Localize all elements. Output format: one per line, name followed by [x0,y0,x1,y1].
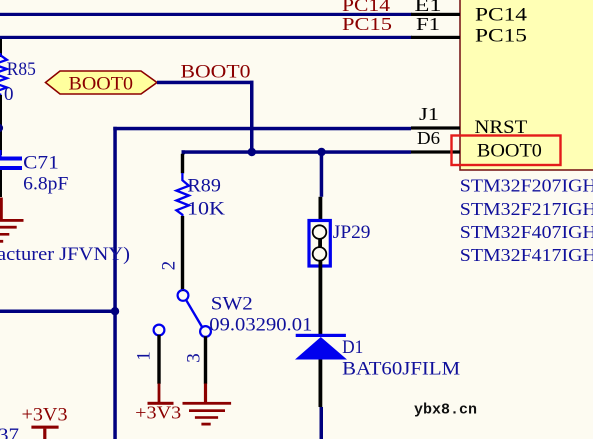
svg-text:1: 1 [134,351,155,361]
port BOOT0 (yellow flag) [46,71,158,95]
wire from port BOOT0 to junction (horizontal) [157,81,254,85]
resistor R85 [0,39,36,155]
power +3V3 at bottom left [22,405,68,439]
wire PC15 (net to MCU pin F1) [0,36,412,39]
junction at x=115,y=311 [111,307,119,315]
svg-text:C71: C71 [23,153,59,174]
svg-text:D6: D6 [417,128,440,148]
svg-text:BOOT0: BOOT0 [181,62,251,83]
comment text STM32F207IGH [460,176,593,196]
svg-text:+3V3: +3V3 [22,405,68,426]
svg-text:JP29: JP29 [333,222,371,243]
svg-text:2: 2 [158,261,179,271]
svg-text:+3V3: +3V3 [135,403,181,423]
ground below C71 [0,198,24,243]
pin D6 (BOOT0) of U1 [411,128,460,154]
svg-text:BOOT0: BOOT0 [477,140,542,161]
svg-text:BAT60JFILM: BAT60JFILM [342,359,460,380]
pin 3 of SW2 [184,336,208,384]
svg-text:09.03290.01: 09.03290.01 [209,314,312,335]
red highlight box around BOOT0 pin [452,136,561,166]
svg-text:R85: R85 [7,59,36,80]
jumper JP29 [309,221,371,267]
wire from BOOT0 net down to JP29 [320,150,324,197]
wire NRST (vertical long run at x=115) [113,127,117,439]
svg-text:ybx8.cn: ybx8.cn [414,402,477,419]
pin J1 (NRST) of U1 [411,104,460,130]
svg-text:PC14: PC14 [475,5,528,26]
svg-text:0: 0 [4,84,14,105]
svg-text:SW2: SW2 [211,294,253,315]
svg-text:6.8pF: 6.8pF [23,174,68,195]
comment text STM32F417IGH [460,245,593,265]
pin F1 (PC15) of U1 [411,14,460,39]
pin 1 of SW2 [134,335,161,384]
pin 2 of SW2 [158,261,184,291]
wire from D1 anode to bottom edge [320,407,324,439]
svg-text:J1: J1 [419,104,439,124]
pin name NRST inside U1 [475,117,528,138]
wire PC14 (net to MCU pin E1) [0,13,412,16]
watermark ybx8.cn [414,402,477,419]
svg-text:F1: F1 [416,14,440,34]
svg-text:PC14: PC14 [342,0,390,15]
resistor R89 [176,154,225,290]
svg-text:STM32F207IGH: STM32F207IGH [460,176,593,196]
net label BOOT0 [181,62,251,83]
pin 2 of JP29 (bottom lead) [319,260,323,334]
ground at SW2 pin 3 [183,384,232,426]
svg-text:R89: R89 [187,175,221,196]
pin E1 (PC14) of U1 [411,0,460,16]
wire BOOT0 net (horizontal to pin D6) [182,150,412,154]
wire stub at left end of BOOT0 net turning down to R89 [182,150,186,154]
junction on left branch at y=128 [0,124,3,133]
capacitor C71 [0,150,68,197]
power +3V3 at SW2 pin 1 [135,384,181,423]
svg-text:acturer JFVNY): acturer JFVNY) [0,244,130,265]
svg-text:D1: D1 [342,337,363,358]
svg-text:3: 3 [184,353,205,363]
pin 1 of JP29 (top lead) [319,197,323,220]
comment text STM32F217IGH [460,199,593,219]
svg-text:PC15: PC15 [475,26,527,47]
capacitor designator fragment 37 [0,425,19,439]
svg-text:10K: 10K [187,199,225,220]
svg-text:STM32F217IGH: STM32F217IGH [460,199,593,219]
svg-text:STM32F417IGH: STM32F417IGH [460,245,593,265]
wire NRST (horizontal to pin J1) [113,127,411,131]
wire from port BOOT0 down to BOOT0 net (vertical) [250,81,254,153]
comment text STM32F407IGH [460,222,593,242]
IC U1 (STM32F2/F4 MCU sheet-part body) [460,0,593,170]
svg-text:BOOT0: BOOT0 [69,74,134,95]
diode D1 (Schottky BAT60JFILM) [295,334,460,407]
net label PC14 [342,0,390,15]
svg-text:E1: E1 [415,0,442,15]
svg-text:37: 37 [0,425,19,439]
switch SW2 [154,290,313,337]
junction on BOOT0 net at port drop [248,148,256,156]
pin name PC15 inside U1 [475,26,527,47]
junction on BOOT0 net at JP29 drop [317,148,325,156]
svg-text:PC15: PC15 [342,14,392,34]
comment text (manufacturer JFVNY) [0,244,130,265]
pin name PC14 inside U1 [475,5,528,26]
net label PC15 [342,14,392,34]
svg-text:STM32F407IGH: STM32F407IGH [460,222,593,242]
pin name BOOT0 inside U1 [477,140,542,161]
wire on left net (horizontal at y=311) [0,310,117,314]
